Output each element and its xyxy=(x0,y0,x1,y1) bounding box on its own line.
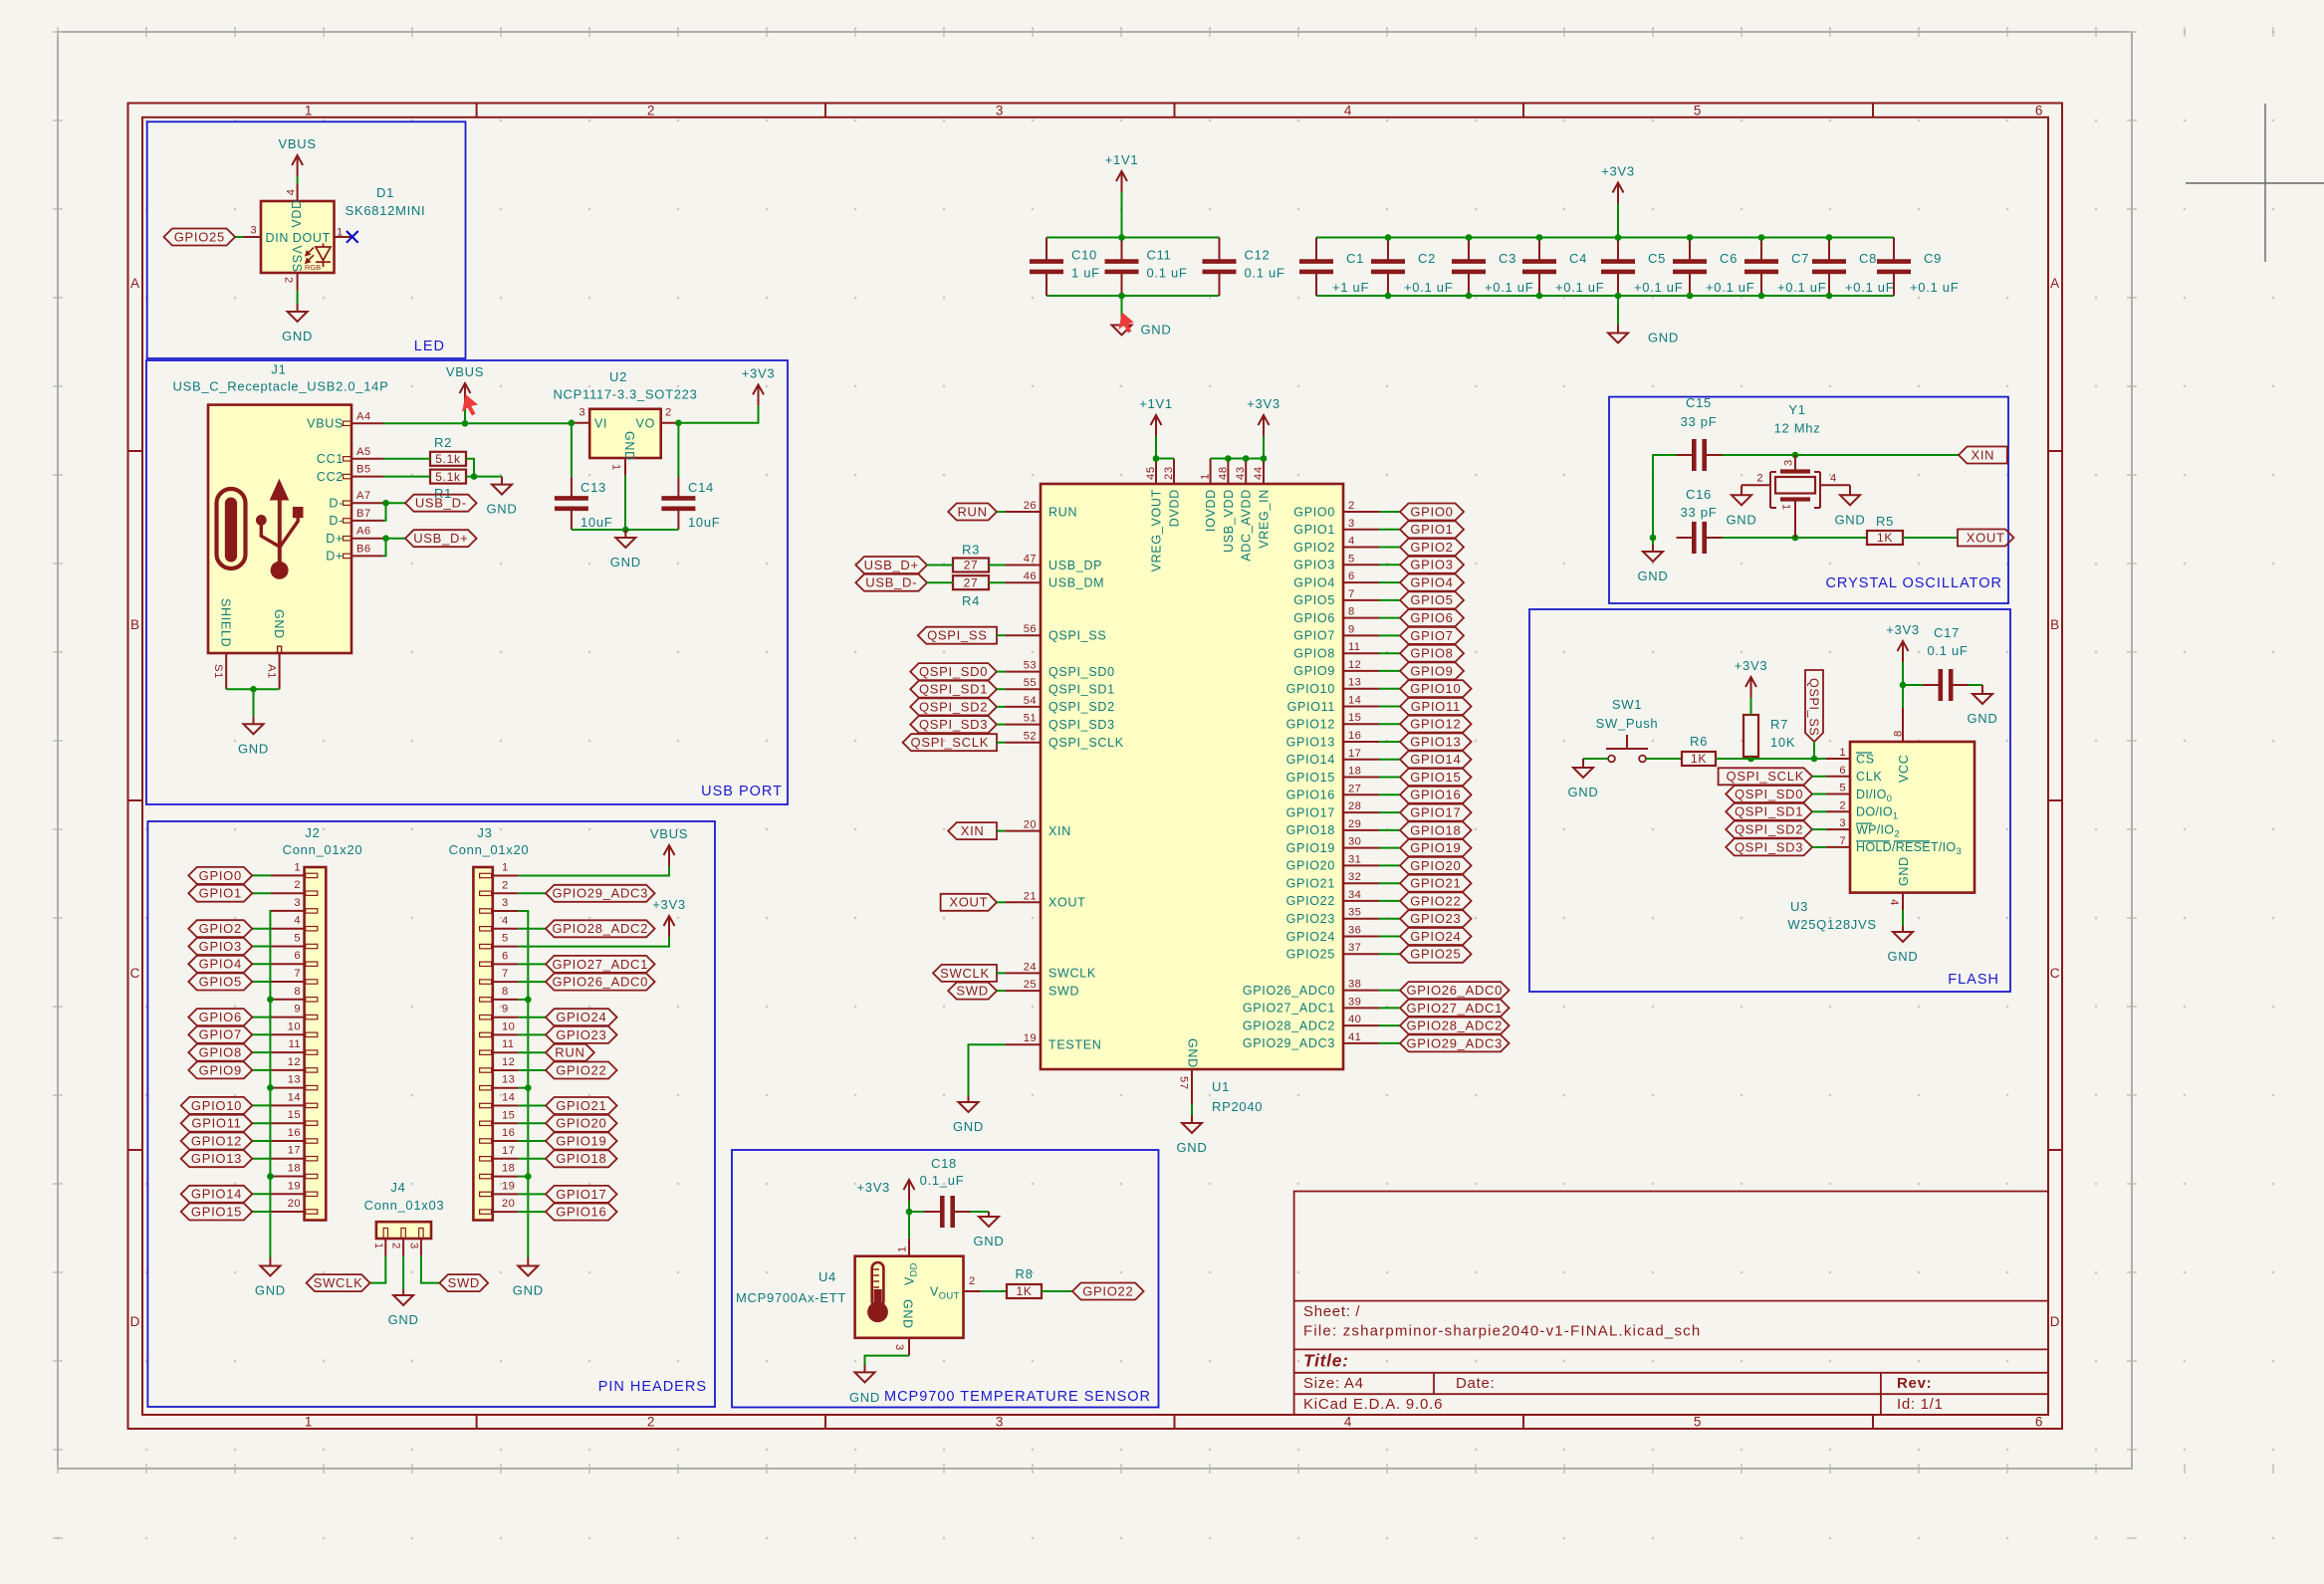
wire xyxy=(1379,688,1400,690)
svg-text:27: 27 xyxy=(964,575,979,589)
pin 2 VO of U2 xyxy=(661,422,679,424)
wire xyxy=(1379,829,1400,831)
global label GPIO6 xyxy=(188,1009,252,1025)
pin 15 GPIO12 of U1 xyxy=(1343,723,1379,725)
svg-text:GPIO18: GPIO18 xyxy=(556,1151,606,1166)
global label GPIO20 xyxy=(1400,857,1472,874)
svg-text:Id: 1/1: Id: 1/1 xyxy=(1897,1396,1944,1413)
global label GPIO20 xyxy=(546,1115,617,1132)
svg-text:XIN: XIN xyxy=(961,823,985,838)
junction xyxy=(1650,535,1657,542)
svg-text:14: 14 xyxy=(1348,695,1361,707)
svg-text:10K: 10K xyxy=(1770,735,1795,750)
wire xyxy=(1379,777,1400,779)
svg-text:GPIO24: GPIO24 xyxy=(1410,929,1461,944)
svg-text:Rev:: Rev: xyxy=(1897,1375,1932,1392)
svg-text:R6: R6 xyxy=(1690,734,1708,749)
origin crosshair xyxy=(2186,104,2324,262)
svg-text:GPIO2: GPIO2 xyxy=(1410,540,1453,555)
power symbol VBUS xyxy=(650,826,688,866)
wire R7 bottom xyxy=(1750,757,1752,759)
svg-text:GPIO5: GPIO5 xyxy=(1410,592,1453,607)
wire xyxy=(997,972,1005,974)
svg-text:DVDD: DVDD xyxy=(1168,489,1182,527)
wire xyxy=(1812,828,1826,830)
svg-text:QSPI_SD0: QSPI_SD0 xyxy=(1735,787,1803,801)
svg-text:GPIO22: GPIO22 xyxy=(1410,893,1461,908)
global label GPIO24 xyxy=(1400,928,1472,945)
svg-text:VBUS: VBUS xyxy=(446,364,484,379)
svg-text:GND: GND xyxy=(1568,785,1599,799)
pin 4 of J2 xyxy=(271,928,305,930)
pin 2 of J4 xyxy=(402,1239,404,1256)
svg-text:QSPI_SD1: QSPI_SD1 xyxy=(919,682,988,697)
flash U3 W25Q128JVS body xyxy=(1850,742,1975,893)
pin 25 SWD of U1 xyxy=(1005,990,1041,992)
no-connect X on DOUT xyxy=(347,231,358,243)
global label GPIO1 xyxy=(188,885,252,902)
global label GPIO27_ADC1 xyxy=(1400,1000,1510,1017)
wire xyxy=(997,742,1005,744)
svg-text:GPIO17: GPIO17 xyxy=(556,1187,606,1202)
wire xyxy=(519,928,546,930)
wire xyxy=(252,1140,271,1142)
ground xyxy=(1968,685,1998,726)
wire xyxy=(519,1140,546,1142)
svg-text:QSPI_SCLK: QSPI_SCLK xyxy=(911,735,990,750)
wire xyxy=(253,689,255,717)
pin 2 DO/IO1 of U3 xyxy=(1826,810,1850,812)
svg-text:11: 11 xyxy=(1348,641,1360,653)
wire xyxy=(1379,547,1400,549)
svg-text:+3V3: +3V3 xyxy=(652,897,686,912)
svg-text:2: 2 xyxy=(969,1275,976,1287)
pin 1 of J4 xyxy=(384,1239,386,1256)
wire xyxy=(1902,910,1904,926)
wire to ground xyxy=(1121,296,1123,317)
pin 36 GPIO24 of U1 xyxy=(1343,936,1379,938)
svg-text:C6: C6 xyxy=(1720,251,1738,266)
wire xyxy=(1155,436,1157,459)
svg-text:5: 5 xyxy=(294,933,301,945)
wire xyxy=(997,830,1005,832)
wire xyxy=(997,671,1005,673)
junction xyxy=(267,1173,274,1180)
svg-text:+1V1: +1V1 xyxy=(1139,396,1173,411)
svg-text:GPIO13: GPIO13 xyxy=(1286,735,1335,749)
wire xyxy=(1379,1042,1400,1044)
svg-text:Conn_01x20: Conn_01x20 xyxy=(283,842,363,857)
wire xyxy=(1379,581,1400,583)
svg-text:QSPI_SCLK: QSPI_SCLK xyxy=(1048,736,1124,750)
wire VCC to +3V3 xyxy=(1902,662,1904,708)
svg-text:GPIO29_ADC3: GPIO29_ADC3 xyxy=(1243,1036,1335,1050)
svg-text:GPIO21: GPIO21 xyxy=(556,1098,606,1113)
svg-text:C15: C15 xyxy=(1686,395,1712,410)
global label SWD xyxy=(948,983,997,1000)
svg-text:15: 15 xyxy=(502,1109,515,1121)
svg-text:GPIO1: GPIO1 xyxy=(1410,522,1453,537)
global label GPIO8 xyxy=(188,1044,252,1061)
pin 1 CS of U3 xyxy=(1826,758,1850,760)
svg-text:2: 2 xyxy=(502,879,509,891)
svg-text:GPIO25: GPIO25 xyxy=(1410,947,1461,962)
svg-text:7: 7 xyxy=(1348,588,1355,600)
pin 39 GPIO27_ADC1 of U1 xyxy=(1343,1007,1379,1009)
global label GPIO14 xyxy=(1400,751,1472,768)
wire XIN net xyxy=(1653,455,1677,538)
svg-text:QSPI_SD0: QSPI_SD0 xyxy=(919,664,988,679)
global label GPIO11 xyxy=(1400,698,1472,715)
pin 12 GPIO9 of U1 xyxy=(1343,670,1379,672)
pin 3 of J2 xyxy=(271,910,305,912)
capacitor C14 xyxy=(677,423,679,477)
resistor R1 xyxy=(430,470,466,484)
junction xyxy=(1747,756,1754,763)
global label GPIO0 xyxy=(1400,504,1464,521)
global label XOUT xyxy=(941,894,997,911)
wire +3V3 pins join xyxy=(1211,458,1264,460)
svg-text:GPIO22: GPIO22 xyxy=(1082,1283,1133,1298)
svg-text:GND: GND xyxy=(974,1234,1005,1248)
svg-text:+3V3: +3V3 xyxy=(1247,396,1280,411)
svg-text:1 uF: 1 uF xyxy=(1071,266,1100,281)
global label RUN xyxy=(546,1044,594,1061)
svg-text:1: 1 xyxy=(372,1243,384,1249)
pin 7 of J3 xyxy=(493,981,519,983)
svg-text:C10: C10 xyxy=(1071,248,1097,263)
svg-text:VBUS: VBUS xyxy=(650,826,688,841)
svg-text:4: 4 xyxy=(1830,473,1837,485)
svg-text:2: 2 xyxy=(390,1243,402,1249)
pin 35 GPIO23 of U1 xyxy=(1343,918,1379,920)
svg-text:GPIO22: GPIO22 xyxy=(1286,894,1335,908)
svg-text:GPIO21: GPIO21 xyxy=(1410,876,1461,891)
pin 1 IOVDD of U1 xyxy=(1210,459,1212,485)
junction xyxy=(1153,455,1160,462)
svg-text:8: 8 xyxy=(502,986,509,998)
wire xyxy=(1379,1007,1400,1009)
svg-text:GPIO4: GPIO4 xyxy=(1293,575,1335,589)
svg-text:GPIO6: GPIO6 xyxy=(199,1010,242,1024)
svg-text:XOUT: XOUT xyxy=(1048,896,1086,910)
svg-text:1: 1 xyxy=(337,227,343,239)
title block xyxy=(1294,1192,2048,1416)
svg-text:10: 10 xyxy=(502,1020,515,1032)
wire R7 to +3V3 xyxy=(1750,698,1752,715)
svg-text:USB_VDD: USB_VDD xyxy=(1222,489,1236,553)
svg-text:+3V3: +3V3 xyxy=(742,365,776,380)
svg-text:+3V3: +3V3 xyxy=(856,1180,890,1195)
wire xyxy=(1379,990,1400,992)
power symbol +3V3 xyxy=(856,1180,914,1201)
ground xyxy=(974,1212,1005,1248)
ground xyxy=(255,1257,286,1298)
wire xyxy=(997,706,1005,708)
global label GPIO18 xyxy=(1400,821,1472,838)
global label XIN xyxy=(948,822,997,839)
power symbol +3V3 xyxy=(652,897,686,937)
wire VO to +3V3 xyxy=(679,405,759,422)
wire xyxy=(997,724,1005,726)
wire top rail xyxy=(1316,237,1894,239)
svg-text:GPIO27_ADC1: GPIO27_ADC1 xyxy=(1407,1001,1504,1016)
svg-text:QSPI_SD2: QSPI_SD2 xyxy=(919,699,988,714)
global label GPIO21 xyxy=(1400,875,1472,892)
pin 44 VREG_IN of U1 xyxy=(1263,459,1265,485)
svg-text:GPIO16: GPIO16 xyxy=(1410,788,1461,802)
wire xyxy=(1379,900,1400,902)
junction xyxy=(471,473,478,480)
svg-text:ADC_AVDD: ADC_AVDD xyxy=(1240,489,1254,562)
global label USB_D- xyxy=(405,495,477,512)
section box FLASH xyxy=(1529,609,2010,992)
svg-text:+3V3: +3V3 xyxy=(1601,164,1635,179)
pin 37 GPIO25 of U1 xyxy=(1343,953,1379,955)
pin 15 of J2 xyxy=(271,1122,305,1124)
svg-text:VREG_VOUT: VREG_VOUT xyxy=(1150,489,1164,571)
pin 8 of J2 xyxy=(271,999,305,1001)
wire xyxy=(235,236,243,238)
svg-text:24: 24 xyxy=(1024,961,1037,973)
wire xyxy=(1379,1024,1400,1026)
svg-text:QSPI_SS: QSPI_SS xyxy=(1807,678,1821,736)
svg-text:GND: GND xyxy=(238,741,269,756)
crystal Y1 12 Mhz xyxy=(1742,402,1850,538)
svg-text:IOVDD: IOVDD xyxy=(1204,489,1218,532)
svg-text:+3V3: +3V3 xyxy=(1735,658,1768,673)
svg-text:GND: GND xyxy=(901,1299,915,1329)
svg-text:17: 17 xyxy=(1348,748,1361,760)
junction xyxy=(267,997,274,1004)
global label QSPI_SS xyxy=(918,627,997,644)
svg-text:SWCLK: SWCLK xyxy=(940,966,990,981)
svg-text:C17: C17 xyxy=(1934,625,1960,640)
pin 20 XIN of U1 xyxy=(1005,830,1041,832)
pin 20 of J3 xyxy=(493,1211,519,1213)
svg-text:GND: GND xyxy=(1835,512,1866,527)
svg-text:1: 1 xyxy=(610,464,622,471)
pin A4 VBUS of J1 xyxy=(351,422,383,424)
pin 24 SWCLK of U1 xyxy=(1005,972,1041,974)
wire xyxy=(252,928,271,930)
svg-text:XIN: XIN xyxy=(1972,447,1995,462)
svg-text:13: 13 xyxy=(1348,677,1361,689)
LED D1 SK6812MINI body xyxy=(261,201,335,273)
svg-text:PIN HEADERS: PIN HEADERS xyxy=(598,1379,707,1395)
svg-text:+1 uF: +1 uF xyxy=(1332,280,1369,295)
svg-text:+0.1 uF: +0.1 uF xyxy=(1706,280,1754,295)
svg-text:34: 34 xyxy=(1348,889,1361,901)
svg-text:9: 9 xyxy=(1348,623,1355,635)
ground xyxy=(1177,1115,1208,1155)
svg-text:10uF: 10uF xyxy=(688,515,720,530)
svg-text:GPIO12: GPIO12 xyxy=(1286,718,1335,732)
junction xyxy=(675,420,682,427)
svg-text:28: 28 xyxy=(1348,800,1361,812)
connector J2 Conn_01x20 body xyxy=(305,867,327,1221)
svg-text:27: 27 xyxy=(964,559,979,572)
pin 8 VCC of U3 xyxy=(1902,708,1904,742)
svg-text:GND: GND xyxy=(487,502,518,517)
svg-text:18: 18 xyxy=(1348,766,1361,778)
svg-text:GPIO19: GPIO19 xyxy=(1286,841,1335,855)
svg-text:3: 3 xyxy=(1839,817,1846,829)
svg-text:RGB: RGB xyxy=(305,263,321,272)
pin 12 of J3 xyxy=(493,1069,519,1071)
svg-text:C11: C11 xyxy=(1147,248,1172,263)
svg-text:1: 1 xyxy=(1839,747,1846,759)
wire xyxy=(1812,810,1826,812)
svg-text:GPIO6: GPIO6 xyxy=(1410,610,1453,625)
svg-text:GPIO10: GPIO10 xyxy=(1286,682,1335,696)
pin 8 of J3 xyxy=(493,999,519,1001)
junction xyxy=(1466,293,1473,300)
pin 53 QSPI_SD0 of U1 xyxy=(1005,671,1041,673)
svg-text:1: 1 xyxy=(502,862,509,874)
pin 34 GPIO22 of U1 xyxy=(1343,900,1379,902)
svg-text:41: 41 xyxy=(1348,1031,1361,1043)
wire J4 pin2 to ground xyxy=(402,1256,404,1289)
wire xyxy=(1379,811,1400,813)
svg-text:33 pF: 33 pF xyxy=(1681,414,1718,429)
pin 48 USB_VDD of U1 xyxy=(1227,459,1229,485)
svg-text:40: 40 xyxy=(1348,1014,1361,1025)
svg-text:QSPI_SD1: QSPI_SD1 xyxy=(1735,804,1803,819)
connector J3 Conn_01x20 body xyxy=(473,867,492,1221)
svg-text:6: 6 xyxy=(1348,570,1355,582)
global label GPIO29_ADC3 xyxy=(546,885,655,902)
wire xyxy=(519,1069,546,1071)
pin 6 of J3 xyxy=(493,963,519,965)
svg-text:3: 3 xyxy=(996,1415,1004,1430)
svg-text:3: 3 xyxy=(893,1344,905,1351)
svg-text:LED: LED xyxy=(414,339,445,354)
global label GPIO3 xyxy=(188,938,252,955)
wire VBUS rail xyxy=(383,422,572,424)
global label XIN xyxy=(1959,447,2007,464)
svg-text:GPIO26_ADC0: GPIO26_ADC0 xyxy=(553,975,649,990)
pin 6 of J2 xyxy=(271,963,305,965)
global label GPIO17 xyxy=(546,1186,617,1203)
global label GPIO12 xyxy=(1400,716,1472,733)
thermometer glyph inside U4 xyxy=(867,1262,888,1322)
svg-text:GND: GND xyxy=(849,1390,880,1405)
capacitor C9 xyxy=(1893,238,1895,261)
junction xyxy=(906,1209,913,1216)
wire J3 ground bus xyxy=(519,911,529,1257)
global label GPIO24 xyxy=(546,1009,617,1025)
svg-text:GND: GND xyxy=(622,431,636,461)
svg-text:USB_DP: USB_DP xyxy=(1048,559,1102,572)
svg-text:GPIO14: GPIO14 xyxy=(1286,753,1335,767)
wire xyxy=(519,1193,546,1195)
svg-text:18: 18 xyxy=(288,1163,301,1175)
global label USB_D- xyxy=(855,574,927,591)
global label GPIO10 xyxy=(1400,680,1472,697)
wire xyxy=(386,502,406,504)
svg-text:2: 2 xyxy=(647,1415,655,1430)
global label GPIO22 xyxy=(1400,892,1472,909)
svg-text:GPIO16: GPIO16 xyxy=(1286,789,1335,802)
global label GPIO13 xyxy=(1400,734,1472,751)
svg-text:GPIO9: GPIO9 xyxy=(199,1062,242,1077)
svg-text:GPIO28_ADC2: GPIO28_ADC2 xyxy=(1407,1018,1504,1033)
svg-text:A1: A1 xyxy=(265,664,277,679)
pin 6 GPIO4 of U1 xyxy=(1343,581,1379,583)
svg-text:GND: GND xyxy=(1141,323,1172,338)
wire xyxy=(252,946,271,948)
svg-text:C1: C1 xyxy=(1346,251,1364,266)
svg-text:3: 3 xyxy=(996,104,1004,118)
svg-text:GPIO0: GPIO0 xyxy=(1410,504,1453,519)
svg-text:+0.1 uF: +0.1 uF xyxy=(1404,280,1453,295)
wire xyxy=(519,1087,529,1089)
pin 3 of J3 xyxy=(493,910,519,912)
power symbol +3V3 xyxy=(1601,164,1635,204)
pin 15 of J3 xyxy=(493,1122,519,1124)
svg-text:GPIO17: GPIO17 xyxy=(1286,805,1335,819)
global label GPIO22 xyxy=(1072,1283,1144,1300)
pin 11 of J2 xyxy=(271,1051,305,1053)
svg-text:RUN: RUN xyxy=(1048,505,1077,519)
pin 47 USB_DP of U1 xyxy=(1005,565,1041,566)
svg-text:D: D xyxy=(2050,1314,2060,1329)
pin 18 of J2 xyxy=(271,1176,305,1178)
svg-text:QSPI_SD2: QSPI_SD2 xyxy=(1048,700,1115,714)
svg-text:J3: J3 xyxy=(477,825,492,840)
svg-text:C7: C7 xyxy=(1791,251,1809,266)
power symbol +1V1 xyxy=(1105,152,1139,192)
svg-text:C2: C2 xyxy=(1418,251,1436,266)
capacitor C4 xyxy=(1538,238,1540,261)
svg-text:57: 57 xyxy=(1178,1076,1190,1090)
svg-text:17: 17 xyxy=(502,1145,515,1157)
section box LED xyxy=(147,121,466,358)
svg-text:SW_Push: SW_Push xyxy=(1596,716,1659,731)
svg-text:D: D xyxy=(130,1314,140,1329)
global label GPIO4 xyxy=(1400,574,1464,591)
svg-text:GND: GND xyxy=(513,1283,544,1298)
svg-text:14: 14 xyxy=(288,1091,301,1103)
wire xyxy=(1379,793,1400,795)
USB logo inside J1 xyxy=(217,480,304,579)
wire xyxy=(1969,684,1982,686)
svg-text:D1: D1 xyxy=(376,185,394,200)
capacitor C5 xyxy=(1617,238,1619,261)
pin 26 RUN of U1 xyxy=(1005,511,1041,513)
junction xyxy=(569,420,576,427)
global label GPIO10 xyxy=(181,1097,253,1114)
svg-text:B: B xyxy=(2050,617,2060,632)
svg-text:GPIO13: GPIO13 xyxy=(191,1151,242,1166)
svg-text:9: 9 xyxy=(502,1004,509,1016)
junction xyxy=(525,1173,532,1180)
wire xyxy=(519,1211,546,1213)
svg-text:5.1k: 5.1k xyxy=(435,470,461,484)
wire xyxy=(989,565,1005,566)
svg-text:KiCad E.D.A. 9.0.6: KiCad E.D.A. 9.0.6 xyxy=(1303,1396,1443,1413)
svg-text:SK6812MINI: SK6812MINI xyxy=(346,203,426,218)
svg-text:QSPI_SD3: QSPI_SD3 xyxy=(1735,839,1803,854)
svg-text:A: A xyxy=(2050,276,2060,291)
wire xyxy=(997,688,1005,690)
sensor U4 MCP9700Ax-ETT body xyxy=(855,1256,964,1338)
svg-text:16: 16 xyxy=(502,1127,515,1139)
wire xyxy=(1379,723,1400,725)
svg-text:SWCLK: SWCLK xyxy=(314,1275,363,1290)
wire xyxy=(1042,1290,1072,1292)
